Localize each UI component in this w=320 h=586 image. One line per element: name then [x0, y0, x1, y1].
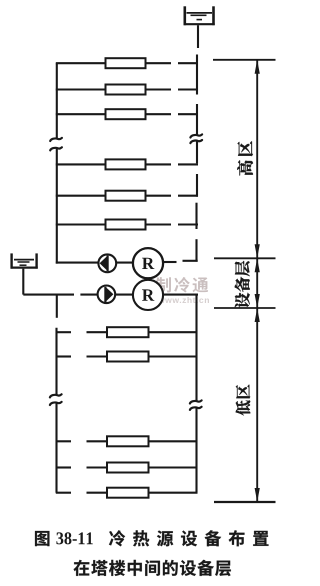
svg-text:www.zht.cn: www.zht.cn	[157, 295, 210, 305]
wire: high-zone branch row 6 right (dashed at riser)	[145, 223, 199, 225]
right riser upper segment 2	[196, 104, 198, 135]
left riser (high zone, upper part)	[56, 63, 58, 138]
dimension line (vertical)	[256, 60, 258, 502]
wire: chiller R2 to right riser	[163, 294, 198, 296]
pump P1 (arrow left)	[98, 254, 116, 272]
radiator L2	[107, 352, 149, 362]
right riser upper segment 6 (to chiller R1 row)	[195, 239, 197, 261]
wire: high-zone branch row 5 left	[56, 195, 108, 197]
arrow up below equip-floor bottom	[255, 308, 260, 322]
wire: low-zone branch row 3 left to radiator	[87, 440, 110, 442]
break mark on right riser (low zone)	[190, 400, 202, 410]
wire: low-zone branch row 5 left stub	[56, 492, 71, 494]
arrow up below equip-floor top	[255, 258, 260, 272]
caption line 2: 在塔楼中间的设备层	[74, 560, 231, 576]
expansion tank T2 (mid level, left)	[11, 253, 38, 268]
wire: low-zone branch row 5 right	[148, 492, 198, 494]
radiator H1	[106, 58, 146, 68]
dimension boundary line (equipment floor bottom)	[214, 307, 276, 309]
wire: pipe from roof tank	[197, 25, 199, 48]
radiator L1	[107, 327, 149, 337]
wire: high-zone branch row 3 left	[56, 113, 108, 115]
radiator H6	[106, 220, 146, 230]
wire: low-zone branch row 4 left stub	[56, 466, 71, 468]
wire: low-zone branch row 2 left stub	[56, 355, 71, 357]
wire: row B resumed to pump P2	[80, 294, 97, 296]
arrow down at equip-floor top	[255, 244, 260, 258]
break mark on left riser (high zone)	[50, 138, 62, 151]
radiator L3	[107, 436, 149, 446]
wire: high-zone branch row 2 right (dashed at riser)	[145, 88, 199, 90]
radiator H4	[106, 159, 146, 169]
wire: low-zone branch row 4 left to radiator	[87, 466, 110, 468]
arrow down at equip-floor bottom	[255, 294, 260, 308]
wire: high-zone branch row 4 right (dashed at riser)	[145, 163, 199, 165]
dimension boundary line (ground)	[214, 501, 276, 503]
radiator H5	[106, 191, 146, 201]
expansion tank T1 (roof)	[184, 6, 215, 25]
wire: low-zone branch row 2 right	[148, 355, 198, 357]
wire: chiller R1 to right riser (dashed)	[163, 261, 198, 262]
wire: low-zone branch row 1 left stub	[56, 331, 71, 333]
chiller R2	[133, 280, 163, 310]
wire: high-zone branch row 6 left	[56, 223, 108, 225]
wire: row B from tank pipe to gap	[23, 294, 74, 296]
wire: pump P2 to chiller R2	[115, 294, 134, 296]
right riser upper segment 5	[195, 203, 197, 229]
break mark on left riser (low zone)	[50, 394, 62, 405]
wire: low-zone branch row 1 left to radiator	[87, 331, 110, 333]
chiller R1	[133, 248, 163, 278]
wire: high-zone branch row 2 left	[56, 88, 108, 90]
wire: low-zone branch row 5 left to radiator	[87, 492, 110, 494]
wire: pipe from tank T2 down	[22, 269, 24, 295]
radiator H2	[106, 85, 146, 95]
wire: high-zone branch row 1 right (dashed at riser)	[145, 62, 199, 64]
arrow up at roof	[255, 60, 260, 74]
wire: high-zone branch row 1 left	[56, 62, 108, 64]
wire: low-zone branch row 2 left to radiator	[87, 355, 110, 357]
radiator L5	[107, 488, 149, 498]
wire: low-zone branch row 1 right	[148, 331, 198, 333]
break mark on right riser (high zone)	[190, 134, 202, 143]
wire: high-zone branch row 3 right (dashed at riser)	[145, 113, 199, 115]
wire: row A from left riser to pump P1	[56, 262, 99, 264]
label 低区 (low zone)	[236, 385, 251, 416]
right riser (low zone upper)	[195, 294, 197, 401]
wire: pump P1 to chiller R1	[116, 262, 134, 264]
wire: high-zone branch row 4 left	[56, 163, 108, 165]
left riser stub below row B	[56, 295, 58, 318]
left riser (low zone lower)	[55, 403, 57, 493]
pump P2 (arrow right)	[98, 286, 116, 304]
dimension boundary line (roof level)	[213, 59, 276, 61]
radiator H3	[106, 109, 146, 119]
watermark 制冷通	[156, 277, 208, 293]
dimension boundary line (equipment floor top)	[214, 257, 276, 259]
wire: low-zone branch row 4 right	[148, 466, 198, 468]
caption line 1: 图 38-11 冷热源设备布置	[35, 530, 268, 546]
right riser (low zone lower)	[195, 408, 197, 493]
label 高区 (high zone)	[237, 141, 253, 175]
wire: low-zone branch row 3 left stub	[56, 440, 71, 442]
right riser upper segment 1	[196, 55, 198, 95]
right riser upper segment 4	[196, 174, 198, 197]
radiator L4	[107, 463, 149, 473]
arrow down at ground	[255, 488, 260, 502]
wire: high-zone branch row 5 right (dashed at riser)	[145, 195, 199, 197]
label 设备层 (equipment floor)	[235, 261, 250, 308]
right riser upper segment 3	[196, 141, 198, 163]
wire: low-zone branch row 3 right	[148, 440, 198, 442]
left riser (high zone, lower part)	[56, 148, 58, 264]
left riser (low zone upper)	[55, 328, 57, 395]
